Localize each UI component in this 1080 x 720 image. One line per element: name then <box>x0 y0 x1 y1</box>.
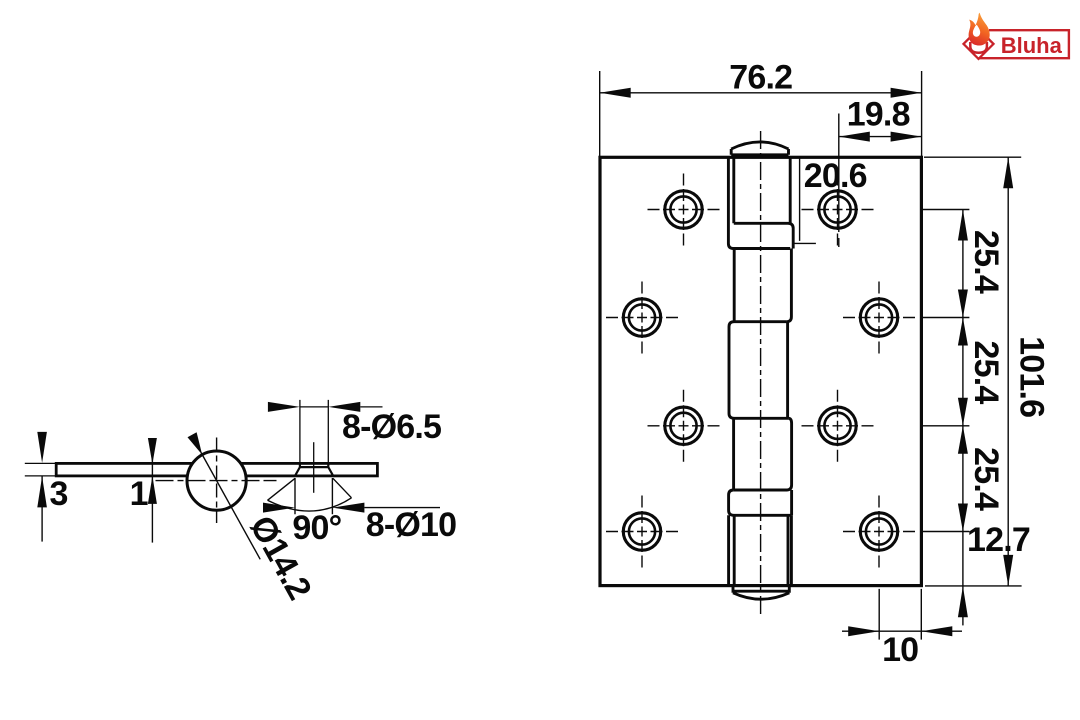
dimension 3 <box>41 476 43 541</box>
upper bearing band <box>734 223 793 248</box>
svg-text:3: 3 <box>50 475 68 513</box>
dimension 101.6 <box>924 157 1022 586</box>
hole center marks <box>606 174 915 568</box>
svg-text:25.4: 25.4 <box>967 447 1005 511</box>
svg-text:Bluha: Bluha <box>1001 33 1063 58</box>
lower bearing band <box>729 490 792 515</box>
pin cap top <box>731 142 788 155</box>
top knuckle segment <box>728 157 790 248</box>
dimension 8-diameter6.5 <box>300 400 383 464</box>
logo diamond <box>964 29 994 59</box>
svg-text:10: 10 <box>882 631 918 669</box>
dimension 19.8 <box>839 114 922 248</box>
knuckle barrel segments <box>728 142 793 599</box>
dimension 20.6 <box>794 158 816 244</box>
diameter 14.2 leader <box>201 453 260 560</box>
svg-text:1: 1 <box>130 475 148 513</box>
svg-text:76.2: 76.2 <box>729 59 792 97</box>
screw holes <box>623 191 897 550</box>
svg-text:101.6: 101.6 <box>1012 336 1050 417</box>
leaf plate side view <box>56 463 377 476</box>
hole row2 right <box>860 299 897 336</box>
logo box <box>978 30 1069 58</box>
bottom knuckle segment <box>729 515 792 585</box>
svg-text:8-Ø6.5: 8-Ø6.5 <box>342 408 441 446</box>
hole row4 left <box>623 513 660 550</box>
fourth knuckle segment <box>734 418 792 490</box>
dimension 12.7 <box>962 586 964 626</box>
pin cap bottom <box>733 586 789 600</box>
hole row1 left <box>665 191 702 228</box>
hole row4 right <box>860 513 897 550</box>
svg-text:90°: 90° <box>292 509 341 547</box>
svg-text:19.8: 19.8 <box>847 96 910 134</box>
dimension 10 <box>842 589 962 640</box>
svg-text:8-Ø10: 8-Ø10 <box>366 506 457 544</box>
svg-text:12.7: 12.7 <box>967 521 1030 559</box>
knuckle circle <box>187 451 246 510</box>
circle center marks <box>156 480 277 482</box>
dimension 1 <box>151 444 153 542</box>
svg-text:25.4: 25.4 <box>967 230 1005 294</box>
hole row2 left <box>623 299 660 336</box>
svg-text:25.4: 25.4 <box>967 341 1005 405</box>
second knuckle segment <box>734 249 791 322</box>
middle knuckle segment <box>729 322 788 419</box>
plate outline <box>600 157 921 585</box>
hole row1 right <box>819 191 856 228</box>
countersink 90 degree cone <box>268 478 441 514</box>
hole row3 left <box>665 407 702 444</box>
svg-text:20.6: 20.6 <box>804 157 867 195</box>
pin center line <box>760 131 762 618</box>
dimension chain 25.4 <box>922 210 969 586</box>
logo burner cup <box>970 42 987 53</box>
countersunk hole section <box>295 463 333 476</box>
dimension 76.2 <box>600 71 922 157</box>
hole row3 right <box>819 407 856 444</box>
